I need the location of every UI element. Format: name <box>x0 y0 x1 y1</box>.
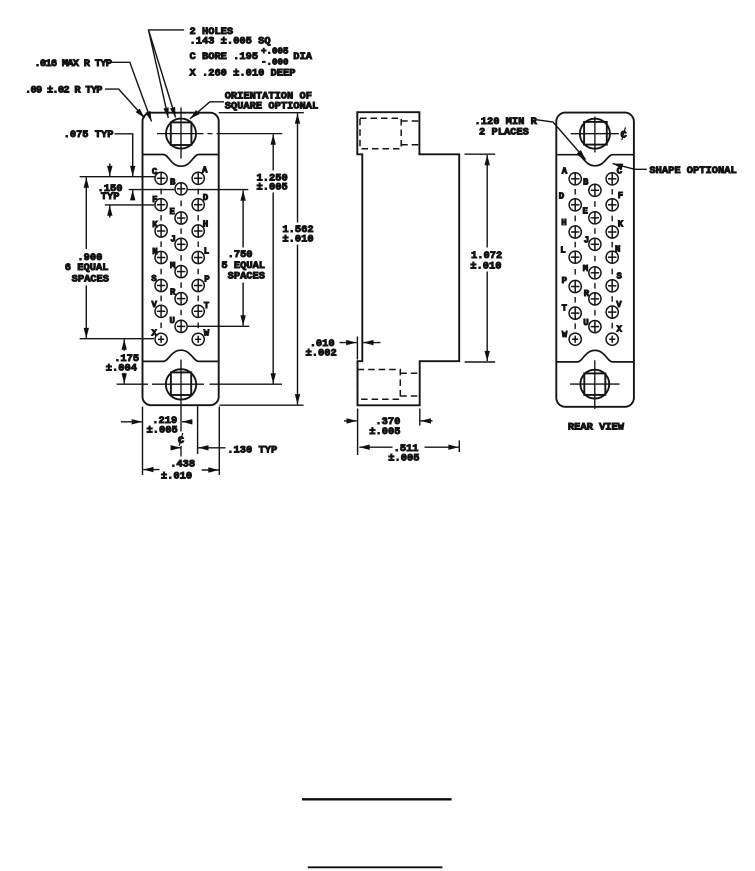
dim .511 +-.005 <box>458 440 460 452</box>
svg-text:L: L <box>204 247 209 257</box>
svg-text:W: W <box>204 329 210 339</box>
contact E (front view) <box>175 212 187 224</box>
svg-text:T: T <box>562 303 568 313</box>
rear right column contact centerline dashes <box>611 189 613 195</box>
svg-text:SQUARE OPTIONAL: SQUARE OPTIONAL <box>225 100 319 112</box>
front left edge extension below <box>142 407 144 476</box>
svg-text:+.005: +.005 <box>261 46 289 57</box>
contact U (front view) <box>175 320 187 332</box>
svg-text:-.000: -.000 <box>261 57 289 68</box>
contact N (rear view) <box>606 251 618 263</box>
rear bottom shoulder line with bump <box>556 350 634 362</box>
svg-text:.130 TYP: .130 TYP <box>227 444 277 456</box>
contact J (front view) <box>175 238 187 250</box>
svg-text:SPACES: SPACES <box>228 271 265 283</box>
svg-text:L: L <box>560 246 565 256</box>
contact H (front view) <box>192 225 204 237</box>
svg-text:REAR VIEW: REAR VIEW <box>568 422 625 434</box>
svg-text:R: R <box>170 288 176 298</box>
svg-text:SHAPE OPTIONAL: SHAPE OPTIONAL <box>649 165 736 177</box>
front bottom shoulder line with bump <box>143 350 219 361</box>
svg-text:W: W <box>562 330 568 340</box>
front top hole square broach <box>171 122 192 145</box>
contact D (front view) <box>192 199 204 211</box>
contact W (rear view) <box>569 333 581 345</box>
svg-text:X: X <box>151 329 157 339</box>
front view body outline <box>143 113 219 406</box>
svg-text:V: V <box>151 300 157 310</box>
svg-text:M: M <box>170 261 175 271</box>
contact L (rear view) <box>569 251 581 263</box>
rear bottom mounting hole <box>580 370 609 399</box>
contact T (front view) <box>192 305 204 317</box>
step edge extension line <box>356 337 358 360</box>
rear top mounting hole <box>580 119 610 149</box>
horizontal rule upper <box>302 798 452 800</box>
contact V (front view) <box>155 305 167 317</box>
svg-text:B: B <box>583 177 589 187</box>
svg-text:±.010: ±.010 <box>161 470 192 482</box>
right contact column extension below <box>197 406 199 454</box>
svg-text:S: S <box>616 272 622 282</box>
svg-text:E: E <box>169 207 175 217</box>
svg-text:.143 ±.005 SQ: .143 ±.005 SQ <box>190 35 271 47</box>
svg-text:X .260 ±.010 DEEP: X .260 ±.010 DEEP <box>190 68 296 80</box>
svg-text:N: N <box>615 244 620 254</box>
svg-text:D: D <box>203 193 209 203</box>
hidden counterbore (bottom), dashed <box>400 373 419 396</box>
svg-text:.750: .750 <box>228 249 253 261</box>
contact V (rear view) <box>606 306 618 318</box>
rear middle column contact centerline dashes <box>594 201 596 207</box>
contact T (rear view) <box>569 307 581 319</box>
svg-text:U: U <box>583 318 588 328</box>
hidden square cavity (bottom), dashed <box>358 370 401 400</box>
contact P (rear view) <box>569 280 581 292</box>
svg-text:C: C <box>152 167 158 177</box>
front top hole vertical centerline <box>180 108 182 159</box>
svg-text:H: H <box>203 219 208 229</box>
contact B (rear view) <box>589 184 601 196</box>
svg-text:.016 MAX R TYP: .016 MAX R TYP <box>34 58 111 70</box>
contact D (rear view) <box>569 199 581 211</box>
contact C (rear view) <box>606 173 618 185</box>
svg-text:±.005: ±.005 <box>388 453 419 465</box>
contact U (rear view) <box>589 321 601 333</box>
svg-text:.438: .438 <box>170 459 195 471</box>
row C extension line <box>80 176 155 178</box>
side view profile outline <box>357 112 459 405</box>
contact R (front view) <box>175 293 187 305</box>
row B extension line <box>129 189 175 191</box>
svg-text:P: P <box>204 274 210 284</box>
contact J (rear view) <box>589 238 601 250</box>
rear bottom hole centerlines <box>594 360 596 409</box>
svg-text:J: J <box>584 235 589 245</box>
svg-text:T: T <box>204 301 210 311</box>
svg-text:DIA: DIA <box>293 51 312 63</box>
top edge extension line (under SQUARE OPTIONAL) <box>219 112 304 114</box>
svg-text:±.005: ±.005 <box>147 424 178 436</box>
svg-text:F: F <box>618 191 623 201</box>
front top mounting hole <box>166 119 196 149</box>
svg-text:K: K <box>152 220 158 230</box>
.075 lower arrow <box>132 190 134 199</box>
contact F (rear view) <box>606 199 618 211</box>
dim .370 +-.005 <box>357 409 359 456</box>
centerline symbol (front view) <box>178 433 184 447</box>
svg-text:±.004: ±.004 <box>106 363 137 375</box>
contact M (rear view) <box>589 267 601 279</box>
contact X (front view) <box>155 333 167 345</box>
svg-text:M: M <box>583 264 588 274</box>
contact F (front view) <box>155 199 167 211</box>
rear top hole square broach <box>584 122 607 145</box>
hidden counterbore (top), dashed <box>401 121 419 145</box>
svg-text:F: F <box>152 195 157 205</box>
row F extension line <box>105 204 155 206</box>
svg-text:P: P <box>562 276 568 286</box>
svg-text:±.005: ±.005 <box>257 182 288 194</box>
svg-text:K: K <box>618 219 624 229</box>
svg-text:±.010: ±.010 <box>282 233 313 245</box>
rear top shoulder line with scallop <box>556 155 634 166</box>
svg-text:.09 ±.02 R TYP: .09 ±.02 R TYP <box>25 85 102 97</box>
svg-text:S: S <box>151 274 157 284</box>
front left column contact centerline dashes <box>160 189 162 195</box>
leader from 2 HOLES note to top hole (two arrows) <box>149 30 185 118</box>
svg-text:SPACES: SPACES <box>72 274 109 286</box>
svg-text:.075 TYP: .075 TYP <box>64 129 114 141</box>
contact B (front view) <box>175 183 187 195</box>
svg-text:±.005: ±.005 <box>369 426 400 438</box>
row U extension line <box>188 325 249 327</box>
contact N (front view) <box>155 251 167 263</box>
svg-text:2 PLACES: 2 PLACES <box>479 127 529 139</box>
contact C (front view) <box>155 172 167 184</box>
row X extension line <box>80 338 154 340</box>
svg-text:N: N <box>152 247 157 257</box>
contact H (rear view) <box>569 226 581 238</box>
dim 1.072 +-.010 <box>465 153 496 155</box>
svg-text:D: D <box>559 191 565 201</box>
contact A (rear view) <box>569 173 581 185</box>
contact S (rear view) <box>606 280 618 292</box>
contact X (rear view) <box>606 333 618 345</box>
contact W (front view) <box>192 333 204 345</box>
svg-text:B: B <box>170 178 176 188</box>
bottom edge extension line right <box>220 404 304 406</box>
front bottom mounting hole <box>166 369 196 399</box>
contact A (front view) <box>192 172 204 184</box>
front middle column contact centerline dashes <box>180 201 182 207</box>
svg-text:U: U <box>169 316 174 326</box>
contact P (front view) <box>192 279 204 291</box>
front right column contact centerline dashes <box>197 189 199 195</box>
rear left column contact centerline dashes <box>574 189 576 195</box>
svg-text:J: J <box>170 235 175 245</box>
svg-text:6 EQUAL: 6 EQUAL <box>65 262 109 274</box>
svg-text:H: H <box>561 218 566 228</box>
rear view body outline <box>556 113 634 407</box>
svg-text:X: X <box>616 325 622 335</box>
svg-text:C: C <box>617 167 623 177</box>
contact R (rear view) <box>589 293 601 305</box>
contact L (front view) <box>192 251 204 263</box>
svg-text:R: R <box>584 289 590 299</box>
contact E (rear view) <box>589 212 601 224</box>
contact K (rear view) <box>606 226 618 238</box>
front top shoulder line with scallop <box>143 155 219 167</box>
svg-text:A: A <box>202 166 208 176</box>
front top hole horizontal centerline / 1.250 top extension <box>157 133 282 135</box>
hidden square cavity (top), dashed <box>360 118 401 149</box>
contact S (front view) <box>155 279 167 291</box>
horizontal rule lower <box>308 866 443 868</box>
svg-text:V: V <box>616 300 622 310</box>
centerline symbol (rear view) <box>620 127 626 141</box>
front bottom hole square broach <box>171 372 191 395</box>
svg-text:C BORE .195: C BORE .195 <box>190 51 259 63</box>
front bottom hole vertical centerline <box>180 360 182 432</box>
svg-text:A: A <box>562 166 568 176</box>
svg-text:±.010: ±.010 <box>470 260 501 272</box>
contact M (front view) <box>175 266 187 278</box>
rear top hole centerlines <box>594 117 596 153</box>
svg-text:TYP: TYP <box>101 191 120 203</box>
front bottom hole horizontal centerline / extensions <box>117 383 282 385</box>
svg-text:±.002: ±.002 <box>306 347 337 359</box>
rear bottom hole square broach <box>584 373 605 395</box>
contact K (front view) <box>155 225 167 237</box>
front right edge extension below <box>218 407 220 476</box>
svg-text:E: E <box>582 207 588 217</box>
